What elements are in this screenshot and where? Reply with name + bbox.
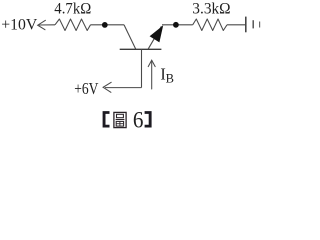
- transistor Q1 base lead down: [141, 49, 143, 87]
- resistor R2 3.3k zigzag: [193, 19, 227, 31]
- transistor Q1 collector lead (left diagonal): [124, 25, 136, 49]
- battery second cell plate: [259, 22, 261, 28]
- node junction dot (base side): [102, 22, 108, 28]
- resistor R1 4.7k zigzag: [55, 19, 91, 31]
- node junction dot (emitter side): [173, 22, 179, 28]
- wire from R1 to base node and on to transistor: [91, 24, 125, 26]
- label IB: [160, 65, 174, 86]
- caption left bracket: [103, 111, 110, 127]
- arrow into +10V terminal: [38, 20, 46, 29]
- transistor Q1 emitter arrowhead: [150, 25, 164, 42]
- arrow into +6V terminal: [103, 82, 111, 92]
- svg-text:4.7kΩ: 4.7kΩ: [54, 0, 91, 17]
- svg-text:6: 6: [133, 108, 144, 131]
- transistor Q1 emitter lead (right diagonal): [148, 26, 162, 49]
- current arrow IB: [148, 60, 155, 89]
- caption number 6: [133, 108, 144, 134]
- battery short plate: [252, 20, 254, 28]
- wire from +10V arrow to R1: [39, 24, 55, 26]
- battery long plate: [245, 17, 247, 33]
- wire from emitter to collector node: [162, 24, 193, 26]
- svg-text:+6V: +6V: [74, 79, 98, 98]
- value label 4.7kOhm: [54, 0, 91, 17]
- wire from base lead to +6V arrow: [105, 87, 142, 89]
- svg-text:+10V: +10V: [1, 16, 37, 33]
- svg-text:3.3kΩ: 3.3kΩ: [192, 0, 230, 17]
- caption right bracket: [145, 111, 152, 127]
- label +10V: [1, 16, 37, 33]
- svg-text:B: B: [166, 72, 174, 86]
- value label 3.3kOhm: [192, 0, 230, 17]
- label +6V: [74, 79, 98, 98]
- transistor Q1 base bar: [120, 48, 162, 50]
- wire from R2 to battery: [227, 24, 245, 26]
- caption glyph tu (figure): [114, 112, 126, 127]
